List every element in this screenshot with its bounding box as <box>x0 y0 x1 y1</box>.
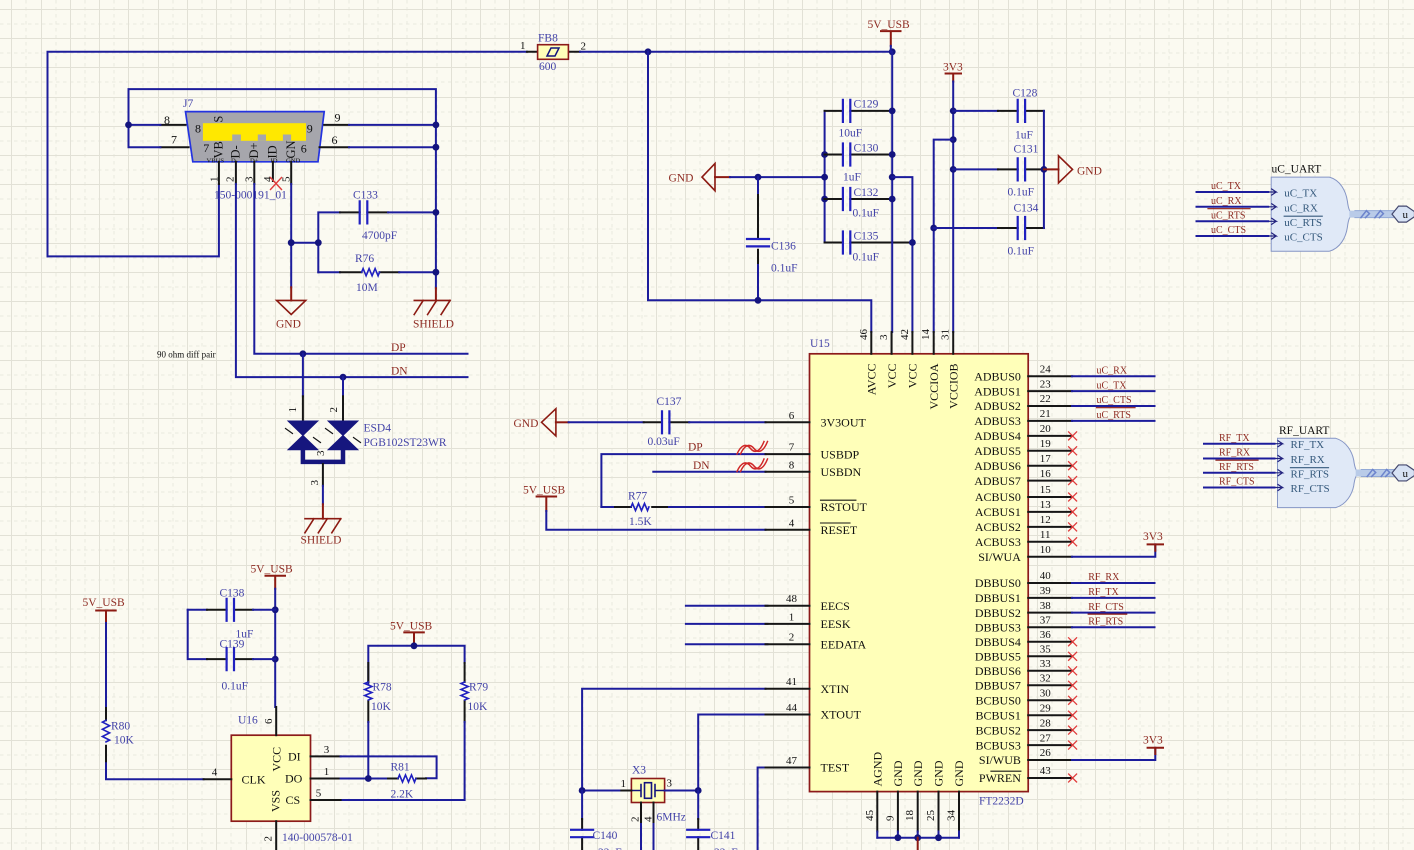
svg-text:15: 15 <box>1040 484 1052 496</box>
harness cable RF_UART <box>1359 465 1414 481</box>
no-connect X pin 35 <box>1069 652 1077 660</box>
svg-text:150-000191_01: 150-000191_01 <box>214 190 287 202</box>
svg-text:VCC: VCC <box>885 364 899 389</box>
svg-text:10uF: 10uF <box>839 128 863 140</box>
svg-text:RF_CTS: RF_CTS <box>1219 477 1255 488</box>
svg-text:5V_USB: 5V_USB <box>83 597 126 609</box>
svg-text:39: 39 <box>1040 585 1052 597</box>
wire VBUS loop bottom <box>48 184 219 256</box>
wire C137 to 3V3OUT <box>689 421 765 423</box>
junction C139 <box>272 656 279 663</box>
svg-text:1uF: 1uF <box>843 172 861 184</box>
svg-text:9: 9 <box>307 121 313 135</box>
wire X3 pin3 <box>665 790 699 792</box>
svg-text:5V_USB: 5V_USB <box>868 19 911 31</box>
ground GND right <box>1044 156 1102 183</box>
resistor R78 <box>365 663 392 722</box>
power port 3V3 pin10 <box>1143 531 1163 551</box>
pin 34 GND U15 <box>946 760 967 838</box>
pin 41 XTIN U15 <box>766 676 850 696</box>
power port 5V_USB r78 <box>390 621 433 646</box>
svg-text:RF_RX: RF_RX <box>1291 454 1325 466</box>
wire 5V to RESET <box>546 511 765 530</box>
svg-text:S: S <box>212 116 226 123</box>
svg-text:EEDATA: EEDATA <box>821 637 867 651</box>
pin 14 VCCIOA U15 <box>920 329 941 410</box>
junction pin9 <box>433 122 440 129</box>
no-connect X pin4 <box>271 178 282 190</box>
capacitor C130 <box>825 143 893 184</box>
svg-text:uC_RX: uC_RX <box>1284 202 1318 214</box>
junction X3 pin3 <box>695 787 702 794</box>
svg-text:CS: CS <box>286 793 301 807</box>
no-connect X pin 28 <box>1069 726 1077 734</box>
pin 46 AVCC U15 <box>858 329 879 396</box>
svg-text:R80: R80 <box>111 721 130 733</box>
svg-text:U16: U16 <box>238 715 258 727</box>
svg-text:uC_RTS: uC_RTS <box>1097 410 1131 421</box>
no-connect X pin 15 <box>1069 493 1077 501</box>
wire USBDN <box>653 471 765 473</box>
resistor R80 <box>102 623 134 763</box>
power port 3V3 top <box>943 62 963 82</box>
svg-text:USBDN: USBDN <box>821 465 862 479</box>
svg-text:3: 3 <box>324 744 330 756</box>
svg-text:28: 28 <box>1040 717 1052 729</box>
svg-text:DBBUS2: DBBUS2 <box>975 606 1021 620</box>
svg-text:DBBUS4: DBBUS4 <box>975 635 1021 649</box>
wire net RF_RTS <box>1072 626 1155 628</box>
wire EEDATA <box>686 643 768 645</box>
wire R78 bottom <box>367 722 369 779</box>
svg-text:C130: C130 <box>854 143 879 155</box>
wire R76 right <box>399 271 436 273</box>
pin 7 J7 <box>160 146 188 148</box>
svg-text:33: 33 <box>1040 658 1052 670</box>
no-connect X pin 32 <box>1069 681 1077 689</box>
svg-text:44: 44 <box>786 702 798 714</box>
svg-text:SHIELD: SHIELD <box>301 535 342 547</box>
svg-text:4: 4 <box>212 767 218 779</box>
wire D+ to DP <box>254 184 467 354</box>
pin 9 J7 <box>324 124 349 126</box>
svg-text:TEST: TEST <box>821 761 850 775</box>
harness cable uC_UART <box>1353 206 1414 222</box>
svg-text:GND: GND <box>932 760 946 786</box>
svg-text:C136: C136 <box>771 241 796 253</box>
junction pin6 <box>433 144 440 151</box>
wire VCCIOA jog <box>934 140 954 332</box>
pin 4 RESET U15 <box>766 517 858 537</box>
power port 5V_USB u16 <box>251 564 294 589</box>
svg-text:6: 6 <box>789 410 795 422</box>
svg-text:0.1uF: 0.1uF <box>853 252 880 264</box>
svg-text:ESD4: ESD4 <box>364 423 392 435</box>
svg-text:RF_TX: RF_TX <box>1219 433 1250 444</box>
svg-text:ACBUS0: ACBUS0 <box>975 490 1021 504</box>
svg-text:DN: DN <box>693 460 710 472</box>
svg-text:41: 41 <box>786 676 797 688</box>
junction gnd rail C131 <box>1041 166 1048 173</box>
wire SI/WUB to 3V3 <box>1072 748 1155 760</box>
svg-text:3V3: 3V3 <box>1143 735 1163 747</box>
svg-text:40: 40 <box>1040 570 1052 582</box>
pin 47 TEST U15 <box>766 755 850 775</box>
pin 18 GND U15 <box>904 760 925 838</box>
wire ESD to shield <box>322 486 324 505</box>
junction gnd bus 938.5 <box>935 834 942 841</box>
svg-text:38: 38 <box>1040 600 1052 612</box>
svg-text:45: 45 <box>864 810 876 822</box>
svg-text:ADBUS6: ADBUS6 <box>974 459 1021 473</box>
svg-text:22: 22 <box>1040 393 1051 405</box>
wire bottom gnd bus <box>877 837 959 839</box>
svg-text:DBBUS0: DBBUS0 <box>975 576 1021 590</box>
pin 23 ADBUS1 U15 <box>974 378 1072 398</box>
svg-text:10K: 10K <box>468 701 489 713</box>
no-connect X pin 43 <box>1069 774 1077 782</box>
svg-text:ID: ID <box>266 145 280 158</box>
ground GND J7 <box>276 287 306 330</box>
ground stem bottom <box>917 838 919 850</box>
pin 45 AGND U15 <box>864 752 885 838</box>
svg-text:uC_RTS: uC_RTS <box>1284 217 1322 229</box>
pin 25 GND U15 <box>925 760 946 838</box>
svg-text:6: 6 <box>263 718 275 724</box>
pin 38 DBBUS2 U15 <box>975 600 1072 620</box>
junction C136 bottom <box>755 297 762 304</box>
capacitor C139 <box>188 610 276 693</box>
svg-text:DN: DN <box>391 366 408 378</box>
svg-text:DBBUS3: DBBUS3 <box>975 621 1021 635</box>
svg-text:16: 16 <box>1040 468 1052 480</box>
svg-text:3: 3 <box>309 480 321 486</box>
svg-text:7: 7 <box>203 141 209 155</box>
svg-text:8: 8 <box>195 121 201 135</box>
svg-text:13: 13 <box>1040 499 1052 511</box>
pin 29 BCBUS1 U15 <box>976 702 1072 722</box>
svg-text:24: 24 <box>1040 363 1052 375</box>
svg-text:20: 20 <box>1040 423 1052 435</box>
pin 3 DI U16 <box>288 744 341 764</box>
wire R77 to RSTOUT <box>669 506 766 508</box>
TVS diode array ESD4 <box>286 396 447 462</box>
svg-text:RF_RTS: RF_RTS <box>1291 468 1329 480</box>
wire net RF_RTS harness <box>1204 472 1275 474</box>
pin 39 DBBUS1 U15 <box>975 585 1072 605</box>
ground GND C137 <box>514 409 569 436</box>
pin 44 XTOUT U15 <box>766 702 862 722</box>
pin 26 SI/WUB U15 <box>979 747 1072 767</box>
capacitor C137 <box>569 396 690 448</box>
svg-text:RF_RTS: RF_RTS <box>1219 462 1254 473</box>
svg-text:23: 23 <box>1040 378 1052 390</box>
svg-text:5V_USB: 5V_USB <box>251 564 294 576</box>
junction 5V_USB <box>889 48 896 55</box>
pin 2 VSS U16 <box>263 790 283 850</box>
svg-text:5: 5 <box>281 176 293 182</box>
wire gnd rail caps <box>824 111 826 243</box>
svg-text:GND: GND <box>514 418 539 430</box>
no-connect X pin 20 <box>1069 432 1077 440</box>
svg-text:J7: J7 <box>183 98 193 110</box>
svg-text:0.1uF: 0.1uF <box>771 263 798 275</box>
no-connect X pin 19 <box>1069 447 1077 455</box>
svg-text:RF_RX: RF_RX <box>1219 448 1251 459</box>
capacitor C135 <box>825 231 913 264</box>
svg-text:3V3: 3V3 <box>1143 531 1163 543</box>
pin 27 BCBUS3 U15 <box>976 732 1072 752</box>
svg-text:CLK: CLK <box>242 773 266 787</box>
svg-text:3V3: 3V3 <box>943 62 963 74</box>
junction VCC jog <box>889 174 896 181</box>
no-connect X pin 36 <box>1069 638 1077 646</box>
junction gnd bus 917.7 <box>914 834 921 841</box>
svg-text:0.03uF: 0.03uF <box>648 436 680 448</box>
pin 3 VCC U15 <box>878 332 899 388</box>
svg-text:6MHz: 6MHz <box>657 812 686 824</box>
svg-text:0.1uF: 0.1uF <box>853 208 880 220</box>
svg-text:4: 4 <box>789 517 795 529</box>
svg-text:2: 2 <box>263 836 275 842</box>
wire R79 to CS <box>341 722 465 800</box>
svg-text:U15: U15 <box>810 338 830 350</box>
svg-text:34: 34 <box>946 810 958 822</box>
wire VCC rail <box>891 52 893 332</box>
svg-text:R81: R81 <box>391 762 410 774</box>
capacitor C128 <box>953 88 1044 142</box>
wire net uC_CTS <box>1072 405 1155 407</box>
wire FB8 to 5V_USB <box>580 51 892 53</box>
svg-text:C128: C128 <box>1013 88 1038 100</box>
pin 6 J7 <box>320 146 350 148</box>
svg-text:1: 1 <box>324 766 330 778</box>
svg-text:DP: DP <box>688 442 703 454</box>
svg-text:C134: C134 <box>1014 203 1039 215</box>
svg-text:ACBUS1: ACBUS1 <box>975 505 1021 519</box>
power port 5V_USB top <box>868 19 911 52</box>
pin 24 ADBUS0 U15 <box>974 363 1072 383</box>
svg-text:5: 5 <box>789 495 795 507</box>
svg-text:AGND: AGND <box>871 752 885 787</box>
capacitor C132 <box>825 187 893 220</box>
svg-text:BCBUS1: BCBUS1 <box>976 708 1021 722</box>
svg-text:ID: ID <box>271 158 278 165</box>
svg-text:RF_CTS: RF_CTS <box>1291 483 1330 495</box>
svg-text:GND: GND <box>669 173 694 185</box>
no-connect X pin 11 <box>1069 538 1077 546</box>
pin 13 ACBUS1 U15 <box>975 499 1072 519</box>
pin 6 VCC U16 <box>263 707 284 772</box>
pin 12 ACBUS2 U15 <box>975 514 1072 534</box>
pin 3 D+ J7 <box>253 162 255 184</box>
svg-text:ACBUS3: ACBUS3 <box>975 535 1021 549</box>
svg-text:RSTOUT: RSTOUT <box>821 500 868 514</box>
wire net uC_RTS harness <box>1197 220 1269 222</box>
svg-text:ADBUS0: ADBUS0 <box>974 369 1021 383</box>
svg-text:uC_RTS: uC_RTS <box>1211 211 1245 222</box>
pin 31 VCCIOB U15 <box>940 329 961 409</box>
wire net uC_CTS harness <box>1197 235 1269 237</box>
wire EECS <box>686 605 768 607</box>
svg-text:VCC: VCC <box>906 364 920 389</box>
svg-text:D+: D+ <box>247 142 261 158</box>
svg-text:3: 3 <box>315 450 327 456</box>
svg-text:1.5K: 1.5K <box>629 516 652 528</box>
svg-text:RF_RX: RF_RX <box>1088 572 1120 583</box>
svg-text:27: 27 <box>1040 732 1052 744</box>
svg-text:2: 2 <box>630 817 642 823</box>
svg-text:uC_CTS: uC_CTS <box>1097 395 1132 406</box>
ground GND cap bank <box>669 164 731 191</box>
svg-text:3: 3 <box>244 176 256 182</box>
pin 35 DBBUS5 U15 <box>975 644 1072 664</box>
pin 28 BCBUS2 U15 <box>976 717 1072 737</box>
wire net RF_RX harness <box>1204 458 1275 460</box>
svg-text:C139: C139 <box>220 639 245 651</box>
wire net uC_TX <box>1072 390 1155 392</box>
svg-text:29: 29 <box>1040 702 1052 714</box>
pin 42 VCC U15 <box>899 329 920 388</box>
capacitor C141 <box>687 791 737 850</box>
svg-text:C140: C140 <box>593 830 618 842</box>
svg-text:VCC: VCC <box>270 747 284 772</box>
svg-text:6: 6 <box>301 141 307 155</box>
pin 4 CLK U16 <box>204 767 266 787</box>
svg-text:42: 42 <box>899 329 911 340</box>
svg-text:GN: GN <box>284 140 298 158</box>
pin 20 ADBUS4 U15 <box>974 423 1072 443</box>
svg-text:BCBUS3: BCBUS3 <box>976 738 1021 752</box>
svg-text:D-: D- <box>231 158 238 165</box>
capacitor C131 <box>953 144 1044 199</box>
svg-text:GND: GND <box>911 760 925 786</box>
svg-text:48: 48 <box>786 593 798 605</box>
svg-text:1uF: 1uF <box>1015 130 1033 142</box>
svg-text:4: 4 <box>643 816 655 822</box>
svg-text:uC_CTS: uC_CTS <box>1211 225 1246 236</box>
wire AVCC feed <box>648 52 871 332</box>
svg-text:0.1uF: 0.1uF <box>1008 187 1035 199</box>
pin 17 ADBUS6 U15 <box>974 453 1072 473</box>
pin 2 EEDATA U15 <box>766 632 867 652</box>
wire X3 pin1 <box>582 790 619 792</box>
svg-text:3V3OUT: 3V3OUT <box>821 416 867 430</box>
svg-text:ADBUS1: ADBUS1 <box>974 384 1021 398</box>
svg-text:ADBUS7: ADBUS7 <box>974 474 1021 488</box>
pin 11 ACBUS3 U15 <box>975 529 1072 549</box>
wire C133 right <box>388 211 436 213</box>
wire R78 R79 top <box>368 646 464 682</box>
wire ESD pin1 drop <box>302 354 304 397</box>
svg-text:2: 2 <box>328 407 340 413</box>
no-connect X pin 13 <box>1069 508 1077 516</box>
pin 1 VBUS J7 <box>218 162 220 184</box>
pin 5 GND J7 <box>290 162 292 184</box>
svg-text:SHIELD: SHIELD <box>413 319 454 331</box>
no-connect X pin 30 <box>1069 696 1077 704</box>
svg-text:DBBUS6: DBBUS6 <box>975 664 1021 678</box>
svg-text:uC_TX: uC_TX <box>1097 380 1128 391</box>
harness entry RF_RTS <box>1275 468 1329 481</box>
harness entry uC_RX <box>1268 202 1318 214</box>
svg-text:9: 9 <box>884 815 896 821</box>
svg-text:1: 1 <box>789 611 795 623</box>
harness entry uC_TX <box>1268 188 1317 200</box>
svg-text:R77: R77 <box>628 491 647 503</box>
svg-text:26: 26 <box>1040 747 1052 759</box>
wire shell pins 8-7 <box>129 89 436 288</box>
pin 6 3V3OUT U15 <box>766 410 867 430</box>
svg-text:5V_USB: 5V_USB <box>523 485 566 497</box>
pin 1 DO U16 <box>285 766 341 786</box>
svg-text:u: u <box>1403 209 1409 221</box>
svg-text:36: 36 <box>1040 629 1052 641</box>
wire GND to cap rail <box>730 176 825 178</box>
svg-text:35: 35 <box>1040 644 1052 656</box>
svg-text:GND: GND <box>286 158 301 165</box>
pin 3 ESD4 <box>322 464 324 486</box>
svg-text:14: 14 <box>920 329 932 341</box>
svg-text:10: 10 <box>1040 544 1052 556</box>
pin 2 D- J7 <box>235 162 237 184</box>
svg-text:DI: DI <box>288 750 301 764</box>
junction C135 VCC2 <box>909 239 916 246</box>
wire XTOUT <box>698 715 765 791</box>
svg-text:ACBUS2: ACBUS2 <box>975 520 1021 534</box>
svg-text:9: 9 <box>335 111 341 125</box>
capacitor C140 <box>571 791 622 850</box>
junction VCC C130 <box>889 151 896 158</box>
svg-text:DO: DO <box>285 772 303 786</box>
pin 37 DBBUS3 U15 <box>975 615 1072 635</box>
junction C133 <box>433 209 440 216</box>
junction C136 top <box>755 174 762 181</box>
svg-text:10M: 10M <box>356 282 378 294</box>
pin 8 J7 <box>160 124 185 126</box>
svg-text:10K: 10K <box>114 735 135 747</box>
capacitor C134 <box>934 203 1044 258</box>
svg-text:19: 19 <box>1040 438 1052 450</box>
svg-text:C132: C132 <box>854 187 879 199</box>
wire net RF_CTS harness <box>1204 487 1275 489</box>
svg-text:RF_TX: RF_TX <box>1291 439 1325 451</box>
junction VCCIOA C134 <box>930 225 937 232</box>
svg-text:USBDP: USBDP <box>821 447 860 461</box>
junction VCC C132 <box>889 196 896 203</box>
svg-text:ADBUS4: ADBUS4 <box>974 429 1021 443</box>
svg-text:ADBUS2: ADBUS2 <box>974 399 1021 413</box>
svg-text:DBBUS7: DBBUS7 <box>975 679 1021 693</box>
svg-text:2: 2 <box>789 632 795 644</box>
wire net RF_TX <box>1072 597 1155 599</box>
capacitor C138 <box>188 588 276 641</box>
pin 21 ADBUS3 U15 <box>974 408 1072 428</box>
harness entry RF_TX <box>1275 439 1325 451</box>
harness entry uC_CTS <box>1268 232 1323 244</box>
svg-text:90 ohm diff pair: 90 ohm diff pair <box>157 350 216 360</box>
wire SI/WUA to 3V3 <box>1072 544 1155 556</box>
pin 4 ID J7 <box>272 162 274 181</box>
no-connect X pin 27 <box>1069 741 1077 749</box>
wire net uC_RTS <box>1072 420 1155 422</box>
no-connect X pin 12 <box>1069 523 1077 531</box>
diff pair mark DP <box>737 442 768 455</box>
svg-text:R79: R79 <box>469 682 488 694</box>
capacitor C133 <box>340 190 397 243</box>
svg-text:7: 7 <box>171 133 177 147</box>
svg-text:PWREN: PWREN <box>979 771 1021 785</box>
